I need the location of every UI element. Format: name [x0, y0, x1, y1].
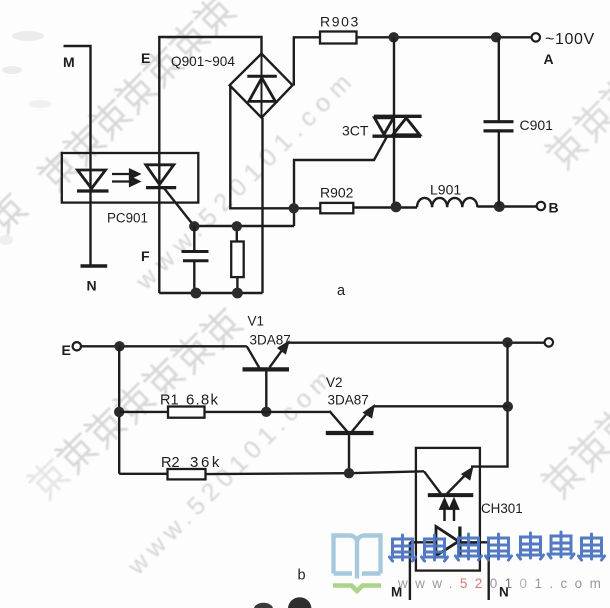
resistor R903: [320, 32, 357, 44]
LED of CH301: [436, 527, 460, 558]
node dot F right: [232, 221, 242, 231]
wire R1 rail: [119, 411, 329, 413]
ground bar N: [81, 264, 108, 267]
resistor R902: [320, 203, 353, 213]
wire right vertical to CH301: [471, 342, 508, 466]
wire R903 to terminal A: [357, 36, 532, 38]
wire triac vertical: [393, 37, 395, 207]
svg-text:B: B: [549, 200, 559, 216]
light coupling arrows: [112, 170, 139, 186]
node dot V1 base on R1 rail: [261, 407, 271, 417]
bottom rail wire: [159, 292, 262, 294]
node dot F: [189, 221, 199, 231]
resistor R1: [168, 407, 205, 418]
svg-text:L901: L901: [430, 182, 461, 198]
capacitor C901: [484, 37, 514, 206]
node dot gate junction: [289, 203, 299, 213]
watermark stripe S3 CJK top-right: [543, 71, 610, 171]
optocoupler PC901 box: [62, 153, 199, 203]
wire LED anode to M: [410, 541, 436, 543]
wire LED cathode to N: [460, 541, 489, 543]
wire PC901 cathode to node F: [164, 188, 195, 227]
node dot R1 left junction: [114, 407, 124, 417]
resistor at node F: [231, 226, 244, 293]
svg-text:CH301: CH301: [481, 501, 523, 516]
logo book icon: [334, 536, 381, 579]
terminal B circle: [537, 202, 545, 210]
wire bridge left corner down to gate rail: [230, 85, 320, 208]
node dot E branch: [114, 341, 124, 351]
svg-text:E: E: [62, 342, 71, 358]
node dot bottom res: [232, 288, 243, 299]
svg-text:3DA87: 3DA87: [328, 393, 369, 408]
transistor V1: [243, 342, 290, 412]
terminal A circle: [532, 33, 540, 41]
wire bridge right corner to R903: [294, 37, 320, 85]
svg-text:Q901~904: Q901~904: [171, 54, 235, 69]
node dot triac-B rail: [391, 202, 402, 213]
triac gate wire: [294, 137, 387, 226]
svg-text:E: E: [141, 50, 150, 66]
logo book chevron: [333, 586, 381, 592]
inductor L901: [417, 198, 477, 207]
svg-text:M: M: [63, 54, 75, 70]
svg-text:~100V: ~100V: [545, 31, 595, 48]
svg-text:V1: V1: [248, 314, 265, 329]
wire bridge bottom corner down: [261, 118, 263, 293]
svg-text:R2: R2: [161, 455, 180, 471]
coupling arrows CH301: [441, 500, 458, 521]
svg-text:R1: R1: [160, 393, 179, 409]
transistor V2: [326, 406, 374, 474]
top rail to output: [288, 342, 545, 344]
wire V2 emitter rail: [374, 405, 508, 407]
triac 3CT: [373, 116, 422, 136]
svg-text:A: A: [544, 51, 554, 67]
svg-text:b: b: [298, 568, 306, 584]
wire E vertical: [159, 37, 261, 293]
wire E branch vertical: [118, 346, 120, 474]
watermark stripe S4 CJK bottom-left: [25, 304, 244, 501]
wire N down: [488, 542, 490, 600]
svg-text:R902: R902: [320, 185, 354, 201]
phototransistor of CH301: [424, 468, 473, 495]
svg-text:www.520101.com: www.520101.com: [397, 576, 608, 591]
node dot V2 emitter rail: [503, 401, 513, 411]
wire L901 to terminal B: [477, 205, 536, 207]
optocoupler CH301 box: [416, 448, 480, 571]
wire R902 to L901: [353, 206, 417, 208]
node dot V2 base on R2 rail: [344, 468, 354, 478]
wire M down: [409, 542, 411, 600]
page blob small: [254, 603, 273, 608]
watermark stripe S6 CJK bottom-right: [539, 401, 610, 500]
svg-text:36k: 36k: [190, 454, 222, 471]
resistor R2: [168, 469, 206, 479]
svg-text:C901: C901: [520, 117, 554, 133]
svg-text:3DA87: 3DA87: [250, 333, 291, 348]
node dot top-left: [389, 32, 399, 42]
bridge rectifier Q901~904: [230, 54, 293, 118]
svg-text:6.8k: 6.8k: [186, 392, 219, 409]
svg-text:V2: V2: [326, 375, 343, 390]
node dot C901 bottom: [494, 201, 505, 212]
svg-text:a: a: [337, 283, 346, 299]
svg-text:3CT: 3CT: [342, 123, 369, 139]
svg-text:N: N: [87, 278, 97, 294]
terminal M lead: [64, 46, 91, 266]
wire R2 rail: [119, 471, 424, 474]
watermark stripe S1 CJK top-left: [0, 0, 237, 235]
node dot bottom cap: [191, 288, 202, 299]
terminal out circle: [545, 338, 553, 346]
terminal E circle: [73, 342, 81, 350]
capacitor at node F: [182, 226, 209, 293]
LED D1 of PC901: [77, 170, 109, 191]
page blob large: [288, 597, 312, 608]
wire node F rail: [194, 225, 294, 227]
svg-text:R903: R903: [320, 14, 360, 30]
node dot top rail: [502, 337, 512, 347]
photothyristor of PC901: [146, 165, 176, 188]
node dot top-right: [491, 32, 501, 42]
svg-text:PC901: PC901: [107, 211, 148, 226]
wire E to V1: [81, 345, 247, 347]
logo CJK title 家电维修资料网: [390, 532, 605, 561]
svg-text:F: F: [141, 248, 150, 264]
